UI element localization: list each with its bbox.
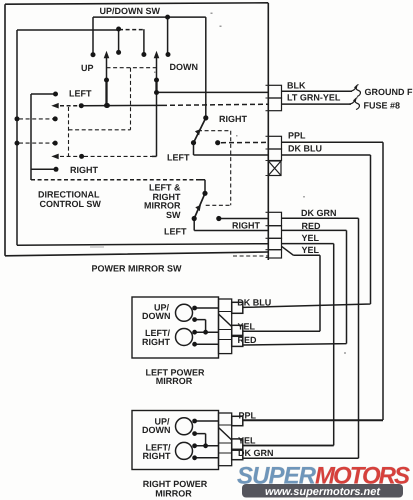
svg-text:LEFT &: LEFT & — [149, 183, 181, 193]
svg-text:YEL: YEL — [302, 233, 320, 243]
svg-text:LEFT: LEFT — [167, 153, 190, 163]
svg-text:RIGHT: RIGHT — [143, 451, 172, 461]
svg-text:RIGHT: RIGHT — [70, 165, 99, 175]
svg-text:PPL: PPL — [239, 410, 257, 420]
svg-text:POWER MIRROR SW: POWER MIRROR SW — [92, 264, 183, 274]
svg-text:UP/DOWN SW: UP/DOWN SW — [100, 6, 161, 16]
svg-text:DK BLU: DK BLU — [237, 298, 271, 308]
svg-text:DK BLU: DK BLU — [288, 144, 322, 154]
svg-text:www.supermotors.net: www.supermotors.net — [265, 486, 381, 498]
svg-text:UP: UP — [81, 63, 94, 73]
svg-text:DOWN: DOWN — [170, 62, 199, 72]
svg-text:PPL: PPL — [288, 131, 306, 141]
svg-text:YEL: YEL — [238, 436, 256, 446]
svg-text:MIRROR: MIRROR — [155, 488, 192, 498]
svg-text:DK GRN: DK GRN — [301, 208, 337, 218]
svg-text:RED: RED — [302, 221, 322, 231]
svg-text:GROUND FEED: GROUND FEED — [365, 87, 413, 97]
svg-text:DOWN: DOWN — [142, 311, 171, 321]
svg-text:BLK: BLK — [287, 80, 306, 90]
svg-text:DK GRN: DK GRN — [238, 448, 274, 458]
svg-text:DOWN: DOWN — [142, 425, 171, 435]
svg-text:RIGHT: RIGHT — [219, 114, 248, 124]
svg-text:RIGHT: RIGHT — [232, 221, 261, 231]
svg-text:RED: RED — [238, 335, 258, 345]
svg-text:LT GRN-YEL: LT GRN-YEL — [287, 92, 341, 102]
svg-text:DIRECTIONAL: DIRECTIONAL — [38, 190, 100, 200]
svg-text:FUSE #8: FUSE #8 — [364, 101, 401, 111]
svg-text:YEL: YEL — [302, 245, 320, 255]
svg-text:YEL: YEL — [238, 322, 256, 332]
svg-text:LEFT: LEFT — [164, 227, 187, 237]
svg-text:RIGHT: RIGHT — [142, 337, 171, 347]
svg-text:MIRROR: MIRROR — [156, 376, 193, 386]
svg-text:SW: SW — [166, 210, 181, 220]
svg-text:CONTROL SW: CONTROL SW — [40, 199, 102, 209]
svg-text:LEFT: LEFT — [69, 89, 92, 99]
